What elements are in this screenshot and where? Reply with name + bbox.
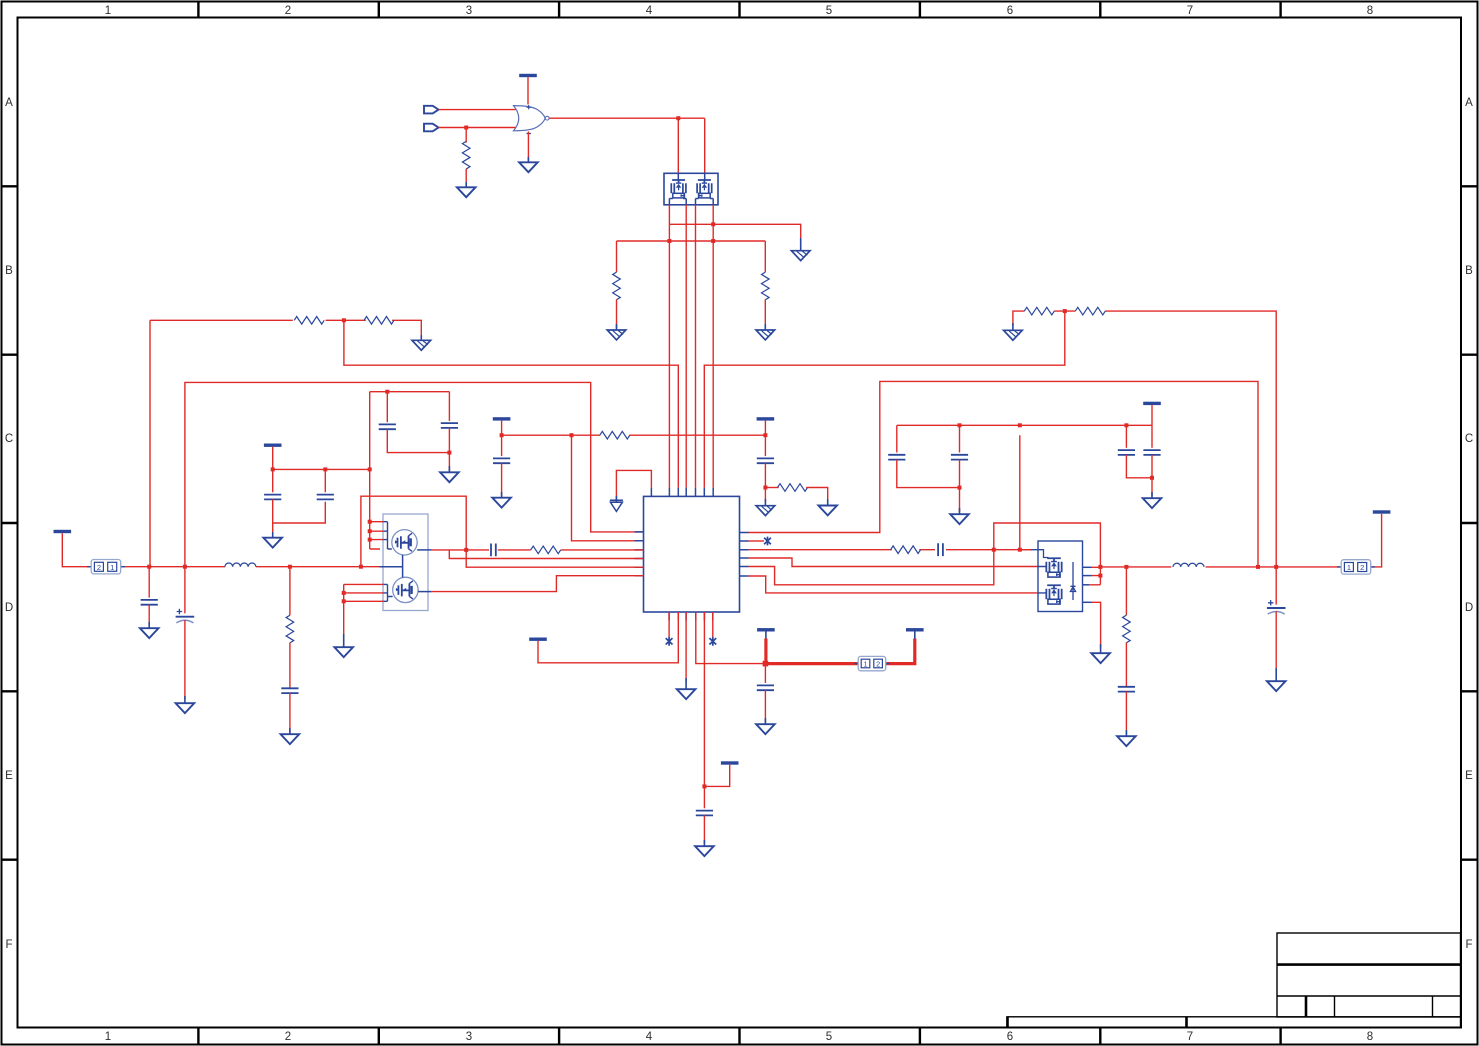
- wire IC-R5 sense net: [749, 550, 994, 585]
- wire C16 leg: [1151, 425, 1153, 448]
- node gate output to Q1A: [676, 116, 680, 120]
- wire node to R9: [765, 487, 778, 489]
- input port P1: [424, 106, 439, 114]
- revision strip ticks: [1008, 1017, 1187, 1028]
- svg-text:5: 5: [826, 5, 832, 17]
- resistor R6: [1024, 307, 1054, 315]
- resistor R11: [531, 546, 561, 554]
- power flag VCC6: [721, 761, 739, 764]
- connector J1: [87, 560, 125, 574]
- wire Q2A drain to boot cap and IC-L3: [432, 549, 644, 551]
- svg-text:2: 2: [285, 1031, 291, 1043]
- wire C6 node to ground: [764, 488, 766, 502]
- wire node to C20: [703, 786, 705, 808]
- MOSFET block Q3 (right half-bridge): [1031, 541, 1092, 612]
- wire VCC3 rail: [502, 421, 766, 436]
- wire VBAT1 stem: [765, 632, 767, 640]
- wire IC-B3 to ground: [685, 612, 687, 682]
- power flag VBAT2: [906, 628, 924, 631]
- wire R6R7 node down to y365 run: [704, 311, 1065, 488]
- capacitor C2: [317, 495, 334, 500]
- no-connect X on IC-R2: [764, 537, 771, 546]
- wire rail right leg: [764, 241, 766, 272]
- wire C3 bottom to C4 bottom: [387, 429, 449, 452]
- wire C18 leg: [1275, 567, 1277, 605]
- node boot run / C3: [385, 390, 389, 394]
- wire C5 top: [501, 435, 503, 456]
- dual MOSFET package Q1: [664, 173, 718, 205]
- svg-text:A: A: [5, 97, 13, 109]
- ground below C7: [140, 628, 159, 638]
- ground below Q3B: [1091, 653, 1110, 663]
- node Q2A gate 2: [368, 529, 372, 533]
- capacitor C13: [888, 455, 905, 460]
- IC right pin stubs: [740, 533, 749, 577]
- ground below C8: [176, 703, 195, 713]
- wire bus to ground: [272, 523, 274, 536]
- wire C20 to ground: [703, 815, 705, 844]
- Q3 internal link: [1031, 550, 1076, 600]
- ground below C4: [440, 472, 459, 482]
- capacitor C15: [1118, 450, 1135, 455]
- wire R13 to C17: [1125, 643, 1127, 687]
- Q3B drain lead: [1083, 584, 1090, 586]
- Q2 internal mid link: [380, 555, 403, 578]
- wire IC-R2 no connect: [749, 540, 765, 542]
- wire gate output net: [549, 118, 705, 173]
- frame column ticks top: [198, 2, 1280, 18]
- no-connect X on IC-B6: [709, 637, 716, 646]
- svg-text:A: A: [1465, 97, 1473, 109]
- node rail/C18: [1274, 565, 1278, 569]
- wire Q3 switch node column: [1089, 567, 1100, 585]
- resistor R9: [778, 484, 808, 492]
- wire R3 to ground: [764, 300, 766, 328]
- ground below C6: [756, 506, 775, 516]
- wire IC-B6 no connect: [712, 612, 714, 638]
- wire VCC4 to C6: [764, 421, 766, 457]
- resistor R13: [1123, 615, 1131, 643]
- power flag VIN1: [1143, 402, 1161, 405]
- capacitor C11 series: [938, 543, 943, 556]
- ground below C16: [1143, 498, 1162, 508]
- node Q2B gate 2: [342, 591, 346, 595]
- power flag VCC4: [757, 417, 775, 420]
- frame row ticks right: [1461, 186, 1477, 859]
- power flag VOUT-R: [1373, 510, 1391, 513]
- wire SW sense loop: [361, 496, 644, 567]
- wire IC-R3 comp net: [749, 549, 1033, 551]
- capacitor C18 electrolytic: [1267, 600, 1286, 614]
- transistor Q2A: [392, 530, 417, 555]
- node battery junction: [763, 661, 769, 667]
- svg-text:1: 1: [1347, 563, 1351, 572]
- capacitor C16: [1143, 450, 1160, 455]
- capacitor C4: [441, 423, 458, 428]
- wire VCC6 to node: [704, 765, 729, 787]
- wire rail left leg: [616, 241, 618, 272]
- wire C12 bus to ground: [959, 460, 961, 512]
- wire IC-R6 gate2 net: [749, 576, 1039, 593]
- transistor Q3A: [1046, 558, 1061, 577]
- node rail/R13: [1124, 565, 1128, 569]
- svg-text:1: 1: [105, 1031, 111, 1043]
- resistor R4: [294, 317, 324, 325]
- node C6 bottom: [763, 486, 767, 490]
- Q3A source lead: [1083, 566, 1092, 568]
- node Q2A gate 1: [368, 520, 372, 524]
- wire Q1 pin3 down to IC: [695, 205, 697, 488]
- power flag VCC3: [493, 417, 511, 420]
- wire C8 to ground: [184, 620, 186, 699]
- wire long net IC-R1 loop: [748, 381, 1258, 566]
- svg-text:4: 4: [646, 5, 653, 17]
- svg-text:2: 2: [285, 5, 291, 17]
- node C16 bottom: [1150, 476, 1154, 480]
- transistor Q3B: [1046, 585, 1061, 604]
- frame row ticks left: [2, 186, 18, 859]
- Q2B drain lead: [418, 591, 432, 593]
- wire output rail left side: [62, 533, 379, 567]
- svg-text:E: E: [1465, 770, 1473, 782]
- wire C13 bottom bus: [897, 460, 960, 488]
- wire Q1 drain1 down to IC: [668, 205, 670, 488]
- vin cap bank upper: wire rail: [897, 424, 1152, 426]
- svg-text:1: 1: [864, 660, 868, 669]
- node rail/SW loop: [359, 565, 363, 569]
- node rail/pin4: [711, 239, 715, 243]
- svg-text:7: 7: [1187, 1031, 1193, 1043]
- node rail/pin1: [667, 239, 671, 243]
- transistor Q2B: [393, 577, 418, 602]
- wire C7 to ground: [148, 605, 150, 627]
- wire Q2B gate column: [344, 584, 384, 637]
- wire left vertical to output rail: [149, 320, 151, 566]
- wire Q1 source branch to ground: [669, 224, 800, 242]
- svg-text:6: 6: [1007, 5, 1013, 17]
- wire C16 bus to ground: [1151, 455, 1153, 496]
- wire VIN1 stem: [1151, 405, 1153, 425]
- ground below C19: [756, 724, 775, 734]
- node R6/R7 junction: [1063, 309, 1067, 313]
- resistor R3: [762, 272, 770, 300]
- ground below Q2B gate column: [334, 647, 353, 657]
- wire R2 to ground: [616, 300, 618, 328]
- node rail/C8: [183, 565, 187, 569]
- wire battery thick run: [765, 639, 914, 664]
- svg-text:2: 2: [876, 660, 880, 669]
- capacitor C17: [1118, 687, 1135, 692]
- wire long net IC-L1 to output rail: [185, 382, 644, 566]
- node rail/C12: [958, 423, 962, 427]
- resistor R1 (pulldown on input): [462, 141, 470, 169]
- wire C15 leg: [1125, 425, 1127, 448]
- resistor R7: [1075, 307, 1105, 315]
- wire Q2B gate column to ground: [343, 634, 345, 648]
- node VCC3/C5: [500, 433, 504, 437]
- title block outline: [1277, 933, 1461, 1017]
- svg-text:B: B: [5, 265, 13, 277]
- wire junction to R1: [465, 128, 467, 143]
- frame column ticks bottom: [198, 1028, 1280, 1044]
- svg-text:8: 8: [1367, 5, 1373, 17]
- ground below C18: [1267, 681, 1286, 691]
- capacitor C12: [951, 455, 968, 460]
- ground for Q1 source branch: [791, 251, 810, 261]
- capacitor C9: [281, 688, 298, 693]
- wire C8 leg: [184, 567, 186, 614]
- wire vin top link: [994, 523, 1101, 567]
- power flag VCC1 (gate supply): [519, 74, 537, 77]
- arrow ground net IC-T1: [616, 470, 651, 502]
- wire IC-B5 long leg: [703, 612, 705, 786]
- wire R13 leg: [1125, 567, 1127, 615]
- ground below R9: [818, 506, 837, 516]
- svg-text:F: F: [1465, 939, 1472, 951]
- node VCC2/C2: [323, 467, 327, 471]
- wire R10 leg: [289, 567, 291, 616]
- Q2B gate pin bus: [383, 584, 392, 601]
- IC bottom pin stubs: [669, 612, 713, 621]
- node VCC3/IC-L2: [570, 433, 574, 437]
- node C4 bottom: [447, 451, 451, 455]
- wire P2 to gate: [439, 127, 516, 129]
- wire VCC2 rail: [273, 447, 370, 470]
- wire C15 bottom bus: [1126, 455, 1152, 478]
- wire C1 bottom / C2 bottom bus: [273, 499, 326, 523]
- inductor L2: [1173, 563, 1204, 567]
- wire R1 to ground: [465, 169, 467, 187]
- wire IC-L4 jog: [449, 550, 643, 559]
- svg-text:8: 8: [1367, 1031, 1373, 1043]
- wire R9 to ground: [806, 488, 828, 502]
- wire C18 to ground: [1275, 611, 1277, 672]
- svg-text:1: 1: [105, 5, 111, 17]
- wire C19 to ground: [764, 690, 766, 722]
- capacitor C19: [757, 685, 774, 690]
- inductor L1: [225, 563, 256, 567]
- wire top-right feedback run: [1013, 311, 1276, 567]
- wire C5 to ground: [501, 463, 503, 496]
- IC top pin stubs: [651, 488, 713, 497]
- ground below R2: [607, 330, 626, 340]
- wire Q3B source to ground: [1092, 602, 1101, 648]
- node rail/RC leg: [288, 565, 292, 569]
- transistor Q1A: [671, 180, 686, 198]
- node VCC2/C1: [271, 467, 275, 471]
- capacitor C8 electrolytic: [176, 609, 195, 623]
- svg-text:C: C: [5, 433, 13, 445]
- svg-text:D: D: [1465, 602, 1473, 614]
- MOSFET block Q2 (left half-bridge): [380, 514, 432, 611]
- wire VCC5 to IC-B2: [538, 612, 678, 663]
- node R4/R5 junction: [342, 318, 346, 322]
- wire Q1 pin4 down to IC: [712, 205, 714, 488]
- node rail/loop riser: [1256, 565, 1260, 569]
- wire Q2B drain to IC-L6: [432, 576, 644, 592]
- svg-text:6: 6: [1007, 1031, 1013, 1043]
- wire IC-B1 no connect: [668, 612, 670, 638]
- Q1 internal pin links: [669, 173, 713, 205]
- ground below IC-B3: [677, 689, 696, 699]
- ground below C1C2: [263, 538, 282, 548]
- svg-text:C: C: [1465, 433, 1473, 445]
- ground below gate: [519, 162, 538, 172]
- svg-text:7: 7: [1187, 5, 1193, 17]
- wire C13 left leg: [896, 425, 898, 452]
- power flag VCC2: [264, 444, 282, 447]
- Q3B source lead: [1083, 601, 1092, 603]
- IC left pin stubs: [635, 532, 644, 576]
- svg-text:3: 3: [466, 5, 472, 17]
- ground below R3: [756, 330, 775, 340]
- no-connect X on IC-B1: [666, 637, 673, 646]
- node boot/SW: [464, 548, 468, 552]
- power flag VOUT-L: [54, 530, 72, 533]
- resistor R5: [364, 317, 394, 325]
- title block heavy divider: [1277, 963, 1461, 966]
- svg-text:D: D: [5, 602, 13, 614]
- node Q1 pin4 on source branch: [711, 222, 715, 226]
- wire battery node to C19: [764, 664, 766, 683]
- node comp/rail riser: [1018, 548, 1022, 552]
- ground below C17: [1117, 736, 1136, 746]
- ground below C5: [492, 498, 511, 508]
- power flag VCC5: [529, 638, 547, 641]
- wire R10 to C9: [289, 643, 291, 689]
- wire C2 top: [324, 469, 326, 492]
- input port P2: [424, 124, 439, 132]
- node P2/R1 junction: [464, 126, 468, 130]
- wire C3 top: [386, 392, 388, 423]
- node comp/vin riser: [992, 548, 996, 552]
- resistor R10: [286, 615, 294, 643]
- node Q2A gate 3: [368, 538, 372, 542]
- capacitor C1: [264, 495, 281, 500]
- node rail/C15: [1124, 423, 1128, 427]
- capacitor C5: [493, 458, 510, 463]
- wire C6 bottom node: [764, 463, 766, 487]
- wire output rail right side: [1100, 514, 1381, 567]
- node VCC2/gate column: [368, 467, 372, 471]
- wire boot cap top run: [370, 392, 450, 549]
- wire top-left feedback run: [150, 320, 421, 338]
- capacitor C7: [141, 600, 158, 605]
- node Q2B gate 3: [342, 599, 346, 603]
- ground below C9: [281, 734, 300, 744]
- wire C4 bottom to ground: [448, 428, 450, 471]
- Q2A drain lead: [417, 549, 432, 551]
- resistor R2: [613, 272, 621, 300]
- wire R4R5 node down to y365 run: [344, 320, 678, 488]
- ground below C20: [695, 846, 714, 856]
- IC U2 controller: [644, 496, 740, 612]
- wire P1 to gate: [439, 109, 516, 111]
- title block row line: [1277, 995, 1461, 997]
- ground below R1: [457, 187, 476, 197]
- wire C7 leg: [148, 567, 150, 598]
- wire IC-R4 gate net: [749, 558, 1039, 567]
- capacitor C10 series: [491, 544, 496, 557]
- node C12 bottom: [958, 486, 962, 490]
- wire IC-L2 net: [572, 435, 644, 541]
- svg-text:4: 4: [646, 1031, 653, 1043]
- connector J2: [1337, 560, 1375, 574]
- connector J3: [855, 656, 890, 670]
- svg-text:B: B: [1465, 265, 1473, 277]
- capacitor C6: [757, 458, 774, 463]
- node rail/riser: [1018, 423, 1022, 427]
- svg-text:2: 2: [1360, 563, 1364, 572]
- svg-text:F: F: [5, 939, 12, 951]
- wire C12 leg: [959, 425, 961, 452]
- node IC-B5 / VCC6: [702, 784, 706, 788]
- transistor Q1B: [697, 180, 712, 198]
- wire Q1 pin2 down to IC: [685, 205, 687, 488]
- title block cell dividers: [1305, 996, 1308, 1017]
- wire Q2A gate stubs: [370, 522, 384, 549]
- capacitor C20: [696, 811, 713, 816]
- Q3 mid lead: [1083, 575, 1092, 577]
- ground below left leg: [1012, 323, 1014, 331]
- node rail/C7: [147, 565, 151, 569]
- wire C9 to ground: [289, 693, 291, 732]
- op-amp style OR gate U1: [514, 105, 550, 134]
- svg-text:2: 2: [97, 563, 101, 572]
- node SW/main: [1098, 565, 1102, 569]
- resistor R8: [600, 431, 630, 439]
- revision strip: [1007, 1017, 1461, 1028]
- resistor R12: [891, 546, 921, 554]
- capacitor C3: [379, 424, 396, 429]
- svg-text:1: 1: [110, 563, 114, 572]
- node VCC4 rail end: [763, 433, 767, 437]
- wire gate-drive resistor rail: [617, 240, 766, 242]
- svg-text:E: E: [5, 770, 13, 782]
- wire C4 top: [448, 392, 450, 421]
- wire C17 to ground: [1125, 692, 1127, 734]
- svg-text:3: 3: [466, 1031, 472, 1043]
- wire C1 top: [272, 469, 274, 492]
- wire IC-B4 to battery node: [696, 612, 766, 664]
- ground below C12: [950, 514, 969, 524]
- wire riser into Q3 drain: [1020, 435, 1031, 550]
- ground below R5 leg: [420, 335, 422, 341]
- wire VBAT2 stem: [914, 632, 916, 640]
- wire VCC1 to gate V+: [527, 77, 529, 104]
- node SW mid: [1098, 574, 1102, 578]
- Q2A gate pin bus: [383, 522, 392, 549]
- power flag VBAT1: [757, 628, 775, 631]
- wire gate V- to ground: [527, 132, 529, 161]
- svg-text:5: 5: [826, 1031, 832, 1043]
